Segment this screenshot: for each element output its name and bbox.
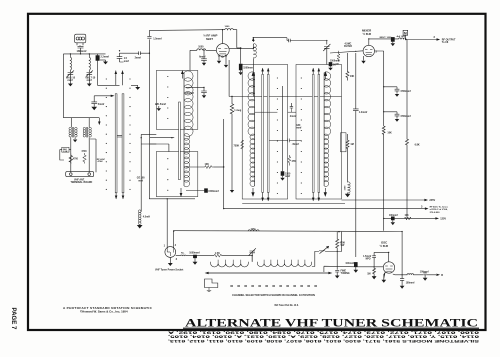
svg-text:6mmf: 6mmf: [199, 56, 206, 59]
grounds under mixer: [362, 56, 365, 63]
svg-text:470K: 470K: [98, 160, 104, 163]
contact dots column: [129, 78, 130, 190]
contact dots column: [277, 77, 278, 194]
RF coil switch box lower: [156, 152, 198, 197]
resistor 1M: [372, 267, 375, 279]
svg-text:1M: 1M: [336, 64, 339, 66]
neutralizing cap row: [369, 38, 391, 40]
mixer coil box right: [296, 65, 342, 200]
bottom bus: [149, 199, 345, 204]
svg-text:180mmf: 180mmf: [77, 49, 87, 53]
svg-text:6166, 6167, 6171, 6172, 6173,: 6166, 6167, 6171, 6172, 6173, 6174, 6175…: [167, 330, 479, 334]
svg-text:½ 6U8: ½ 6U8: [363, 32, 372, 36]
RF coil L4 scallops: [183, 73, 185, 186]
feedthrough capacitor C4: [98, 54, 120, 85]
capacitor C7 5mmf: [91, 96, 97, 107]
svg-text:VHF Tuner Power Socket: VHF Tuner Power Socket: [155, 269, 183, 272]
ground: [104, 60, 108, 64]
balun transformer T1: [69, 127, 77, 137]
fine tuning coil: [315, 250, 337, 253]
svg-text:M: M: [404, 31, 407, 35]
ground: [69, 82, 73, 86]
wire: [77, 43, 83, 46]
svg-text:of R16-C of V104,: of R16-C of V104,: [430, 208, 448, 211]
svg-text:1M: 1M: [367, 273, 370, 276]
svg-text:B: B: [441, 274, 443, 277]
resistor 10K horizontal: [405, 217, 411, 220]
svg-text:mmf: mmf: [68, 79, 73, 82]
svg-text:TUNING: TUNING: [341, 272, 350, 275]
wire cathode down: [223, 119, 225, 209]
svg-text:10K: 10K: [350, 75, 355, 78]
trap resistor: [337, 51, 340, 62]
trimmer capacitor C2: [67, 71, 74, 83]
svg-text:1000: 1000: [251, 228, 257, 230]
svg-text:100mmf: 100mmf: [185, 92, 194, 95]
strip crossbar: [117, 135, 122, 137]
core strips left pair: [262, 74, 264, 192]
osc coil bank B: [257, 262, 311, 267]
core strips right pair: [312, 74, 314, 192]
mixer coil L6 scallops: [254, 73, 256, 186]
osc output coil: [393, 274, 423, 275]
capacitor 1.2mmf grid line: [353, 53, 359, 257]
wire taps left: [150, 138, 174, 152]
svg-text:1000mmf: 1000mmf: [189, 252, 200, 255]
balun transformer T2: [83, 127, 91, 137]
resistor 470K: [336, 232, 339, 270]
svg-text:FILTER: FILTER: [344, 46, 352, 48]
long vertical from output junction: [406, 40, 409, 219]
mixer tube V2: [363, 45, 374, 56]
mixer plate vertical: [375, 51, 386, 231]
osc grid wire to rotor: [324, 266, 356, 272]
svg-text:CHANNEL SELECTOR SWITCH SHOWN: CHANNEL SELECTOR SWITCH SHOWN IN CHANNEL…: [232, 293, 315, 297]
ground: [202, 63, 205, 65]
ground: [157, 106, 160, 111]
svg-text:mmf: mmf: [87, 79, 92, 82]
wire to mixer grid: [330, 51, 363, 53]
svg-text:470K: 470K: [340, 242, 346, 245]
svg-text:750K: 750K: [234, 145, 240, 148]
B plus drop to osc: [337, 232, 341, 252]
trimmer capacitor mixer grid: [287, 39, 326, 43]
svg-text:100mmf: 100mmf: [345, 263, 354, 265]
feedthrough capacitor 1500mmf: [237, 48, 241, 64]
svg-text:4700mmf: 4700mmf: [400, 90, 411, 93]
coil 1000: [394, 37, 406, 40]
wire antenna loop: [63, 54, 105, 118]
svg-text:No.: No.: [181, 253, 185, 255]
arrow down: [98, 118, 100, 125]
bus wire: [229, 60, 341, 97]
osc trimmer: [249, 248, 256, 262]
svg-text:1.5K: 1.5K: [63, 151, 68, 153]
osc tube V3: [383, 262, 394, 273]
ground: [202, 96, 205, 98]
strip arrows: [312, 68, 314, 74]
svg-text:1 meg: 1 meg: [234, 109, 241, 112]
capacitor 100mmf: [186, 87, 207, 95]
detent block: [205, 279, 218, 288]
osc coil bank A: [211, 262, 249, 267]
capacitor C6 2mmf: [139, 51, 150, 55]
test point M box: [403, 30, 408, 35]
antenna strip A: [115, 94, 117, 193]
svg-text:5mmf: 5mmf: [98, 103, 105, 106]
choke 4.5mH: [141, 134, 156, 211]
svg-text:NPO: NPO: [366, 258, 371, 260]
feedthrough capacitor 1500mmf: [186, 190, 205, 192]
svg-text:4.5mH: 4.5mH: [143, 216, 150, 219]
svg-text:1.5mmf: 1.5mmf: [153, 37, 162, 40]
svg-text:mmf: mmf: [124, 60, 129, 63]
svg-text:NEUT. 1000: NEUT. 1000: [380, 37, 393, 39]
B+ 245V wire: [342, 199, 428, 201]
top grid wire: [149, 29, 222, 32]
socket output coil: [176, 254, 214, 257]
wire to balun: [63, 118, 99, 128]
svg-text:4700: 4700: [81, 150, 87, 153]
svg-text:ALTERNATE VHF TUNER SCHEMATIC: ALTERNATE VHF TUNER SCHEMATIC: [185, 317, 478, 329]
svg-text:TERMINAL BOARD: TERMINAL BOARD: [71, 181, 93, 184]
tube V1: [216, 44, 229, 57]
dipole arrows: [115, 71, 117, 86]
ground: [131, 85, 140, 89]
svg-text:6BZ7: 6BZ7: [206, 37, 213, 41]
svg-text:GE 180: GE 180: [137, 178, 146, 180]
svg-text:©Howard W. Sams & Co., Inc. 19: ©Howard W. Sams & Co., Inc. 1954: [80, 310, 128, 314]
svg-text:100mmf: 100mmf: [389, 215, 398, 217]
capacitor C5: [117, 53, 124, 62]
mixer coil box left: [242, 65, 287, 200]
feedthrough capacitor 1500mmf: [281, 172, 284, 176]
feedthrough capacitor 100mmf: [391, 217, 394, 220]
core slug: [179, 102, 181, 180]
coil L2: [70, 54, 71, 72]
fine tuning trimmer: [335, 270, 339, 275]
svg-text:2mmf: 2mmf: [135, 56, 142, 59]
svg-text:1500mmf: 1500mmf: [208, 190, 219, 193]
antenna matching box L1: [75, 34, 86, 43]
svg-text:PAGE 7: PAGE 7: [10, 308, 17, 331]
svg-text:180mmf: 180mmf: [406, 282, 415, 284]
svg-text:2.2mmf: 2.2mmf: [101, 56, 110, 59]
antenna strip B: [122, 94, 124, 193]
rotor contact dashes: [230, 285, 317, 287]
capacitor 4700mmf lower: [384, 112, 400, 119]
resistor R1 1.5K box: [62, 147, 69, 152]
resistor R2 4700: [69, 154, 72, 165]
capacitor 180mmf: [400, 232, 404, 286]
B+ wire to mixer: [253, 38, 287, 41]
svg-text:RF AGC To Junct.: RF AGC To Junct.: [430, 206, 449, 209]
filter box: [341, 133, 347, 152]
coil bottom arrow: [180, 188, 182, 197]
svg-text:mmf: mmf: [138, 180, 143, 182]
switch shaft arrow: [206, 272, 331, 274]
capacitor C1 180mmf: [78, 46, 84, 54]
coil top arrow: [181, 71, 183, 79]
svg-text:½ 6U8: ½ 6U8: [380, 244, 389, 248]
ground: [88, 82, 92, 86]
svg-text:1.2mmf: 1.2mmf: [359, 111, 368, 114]
mixer osc coil L7 scallops: [323, 73, 325, 186]
svg-text:270-6.800: 270-6.800: [430, 212, 441, 214]
rotated model list: [167, 330, 479, 342]
trimmer capacitor C3: [86, 71, 93, 83]
heater bus: [173, 230, 402, 233]
VHF antenna terminal board: [66, 172, 94, 177]
center tap ground: [74, 137, 77, 141]
svg-text:4.5MC: 4.5MC: [345, 42, 352, 45]
svg-text:mmf: mmf: [296, 127, 301, 130]
125V wire: [384, 218, 439, 220]
svg-text:4700: 4700: [73, 158, 79, 161]
feedthrough 1500mmf top right: [329, 62, 332, 66]
strip bottom wire to socket: [166, 199, 168, 247]
svg-text:1500mmf: 1500mmf: [243, 67, 254, 70]
svg-text:2mmf: 2mmf: [290, 115, 297, 118]
svg-text:47K: 47K: [292, 160, 297, 163]
svg-text:5K: 5K: [333, 65, 336, 67]
grounds under osc tube: [382, 272, 385, 282]
cathode grounds: [217, 57, 220, 63]
resistor 10K cathode: [346, 53, 349, 81]
resistor 1meg: [230, 97, 233, 191]
svg-text:22K.5mmf: 22K.5mmf: [155, 104, 166, 106]
plate B+ wire: [374, 252, 389, 261]
svg-text:245V: 245V: [429, 199, 435, 202]
coil L3: [89, 54, 90, 72]
svg-text:10K: 10K: [387, 131, 392, 134]
osc grid wire: [356, 266, 384, 268]
wire grid RF amp: [189, 50, 191, 70]
VHF tuner power socket: [165, 247, 176, 258]
contact dots column: [167, 76, 168, 191]
RF coil switch box upper: [156, 71, 198, 130]
plate load coil L5: [229, 44, 254, 49]
RF output arrow: [406, 39, 440, 41]
contact dots column: [106, 78, 107, 190]
ground: [230, 190, 233, 192]
strip arrows: [262, 68, 264, 74]
svg-text:125V: 125V: [440, 218, 446, 221]
trimmer: [323, 41, 330, 65]
svg-text:.5mmf: .5mmf: [292, 143, 299, 146]
svg-text:1000: 1000: [198, 46, 204, 49]
svg-text:1M: 1M: [350, 143, 353, 146]
svg-text:To C8: To C8: [442, 41, 449, 44]
wire coil to 10K: [186, 166, 204, 168]
feedthrough cap: [391, 37, 394, 41]
svg-text:1000: 1000: [225, 26, 231, 28]
bus coil 1000: [248, 230, 259, 231]
capacitor 4700mmf: [384, 87, 400, 94]
resistor 1M filter: [346, 134, 349, 182]
svg-text:1000: 1000: [345, 185, 347, 191]
svg-text:1500mmf: 1500mmf: [330, 61, 340, 63]
svg-text:mmf: mmf: [285, 175, 290, 178]
coil 1000 vertical: [348, 182, 351, 193]
svg-text:4700mmf: 4700mmf: [400, 115, 411, 118]
svg-text:VHF Tuner Part No. 10-6.: VHF Tuner Part No. 10-6.: [274, 304, 299, 307]
wire to RF strip: [120, 52, 139, 54]
svg-text:6.8K: 6.8K: [415, 143, 420, 146]
grid riser: [147, 30, 151, 198]
svg-text:10K: 10K: [405, 215, 410, 217]
wires to terminal board: [71, 137, 96, 172]
wire plate to bus: [252, 58, 254, 96]
contact dots column: [301, 77, 302, 194]
RF AGC wire: [224, 208, 428, 210]
